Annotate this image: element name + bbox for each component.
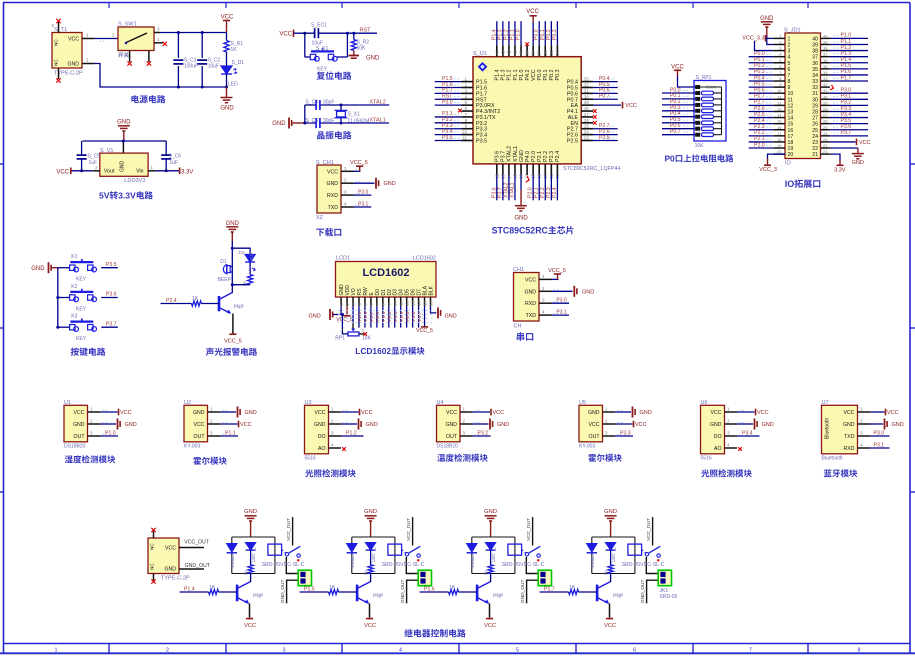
- svg-text:P1.1: P1.1: [841, 39, 852, 45]
- svg-text:3.3V: 3.3V: [834, 168, 846, 174]
- svg-text:27: 27: [812, 116, 818, 122]
- svg-text:1N4007: 1N4007: [350, 552, 355, 568]
- svg-text:P0.0: P0.0: [375, 311, 381, 321]
- svg-text:24: 24: [823, 131, 828, 136]
- svg-text:SRD-05VDC-SL-C: SRD-05VDC-SL-C: [262, 562, 305, 568]
- svg-text:38: 38: [823, 46, 828, 51]
- svg-text:XTAL1: XTAL1: [509, 182, 515, 198]
- svg-text:LED: LED: [251, 554, 256, 562]
- svg-text:VCC: VCC: [361, 410, 373, 416]
- svg-text:5V: 5V: [99, 191, 110, 201]
- svg-text:GND: GND: [582, 289, 594, 295]
- svg-text:10uF: 10uF: [208, 64, 219, 70]
- svg-text:S_EC1: S_EC1: [311, 23, 327, 29]
- svg-text:GND: GND: [710, 422, 722, 428]
- svg-text:1K: 1K: [603, 570, 608, 575]
- svg-text:P3.0: P3.0: [874, 430, 885, 436]
- svg-text:1uF: 1uF: [89, 160, 98, 166]
- svg-text:17: 17: [777, 131, 782, 136]
- svg-text:1N4007: 1N4007: [590, 552, 595, 568]
- svg-text:SRD-05: SRD-05: [660, 594, 678, 600]
- svg-text:P0.4: P0.4: [670, 111, 681, 117]
- svg-text:10: 10: [777, 88, 782, 93]
- svg-text:22: 22: [823, 143, 828, 148]
- svg-text:DO: DO: [714, 434, 722, 440]
- svg-text:VCC_OUT: VCC_OUT: [184, 540, 210, 546]
- svg-text:GND: GND: [226, 221, 240, 227]
- svg-text:P1.6: P1.6: [841, 69, 852, 75]
- svg-text:19: 19: [788, 146, 794, 152]
- svg-text:1K: 1K: [192, 296, 199, 302]
- svg-text:VCC: VCC: [279, 31, 292, 37]
- svg-text:S_T1: S_T1: [54, 27, 67, 33]
- svg-text:GND: GND: [640, 410, 652, 416]
- svg-text:39: 39: [812, 42, 818, 48]
- svg-text:Bluetooth: Bluetooth: [825, 418, 831, 439]
- svg-text:OUT: OUT: [194, 434, 206, 440]
- svg-text:32: 32: [584, 82, 589, 87]
- svg-text:S_U1: S_U1: [473, 51, 487, 57]
- svg-text:14: 14: [788, 116, 794, 122]
- svg-text:10K: 10K: [357, 46, 367, 52]
- svg-text:P3.5: P3.5: [841, 118, 852, 124]
- svg-text:PNP: PNP: [234, 305, 245, 311]
- svg-text:VCC: VCC: [221, 15, 234, 21]
- svg-text:37: 37: [823, 52, 828, 57]
- svg-text:P0.7: P0.7: [417, 311, 423, 321]
- svg-text:VCC: VCC: [240, 422, 252, 428]
- svg-text:RXD: RXD: [844, 446, 855, 452]
- svg-text:P0.3: P0.3: [754, 69, 765, 75]
- svg-text:16: 16: [777, 125, 782, 130]
- svg-text:1K: 1K: [231, 47, 238, 53]
- svg-text:IO: IO: [785, 179, 795, 189]
- svg-text:STC89C52RC_LQFP44: STC89C52RC_LQFP44: [563, 166, 621, 172]
- svg-text:7: 7: [749, 647, 752, 653]
- svg-text:S_C5: S_C5: [88, 154, 101, 160]
- svg-text:3.3V: 3.3V: [181, 169, 193, 175]
- svg-text:P3.0: P3.0: [358, 190, 369, 196]
- svg-text:S_SW1: S_SW1: [118, 22, 137, 28]
- svg-text:31: 31: [812, 91, 818, 97]
- svg-text:Vin: Vin: [136, 169, 144, 175]
- svg-text:GND: GND: [445, 422, 457, 428]
- svg-text:GND: GND: [588, 410, 600, 416]
- svg-text:VCC_OUT: VCC_OUT: [406, 518, 412, 541]
- svg-text:VCC: VCC: [446, 410, 457, 416]
- svg-text:25: 25: [823, 125, 828, 130]
- svg-text:26: 26: [823, 119, 828, 124]
- svg-text:GND: GND: [384, 181, 396, 187]
- svg-text:27: 27: [823, 113, 828, 118]
- svg-text:VCC: VCC: [887, 410, 899, 416]
- svg-text:39: 39: [823, 39, 828, 44]
- svg-text:100uF: 100uF: [184, 64, 198, 70]
- svg-text:37: 37: [537, 50, 542, 55]
- svg-text:1K: 1K: [329, 585, 336, 591]
- svg-text:12: 12: [404, 300, 409, 305]
- svg-text:40: 40: [519, 50, 524, 55]
- svg-text:6: 6: [788, 67, 791, 73]
- svg-text:SRD-05VDC-SL-C: SRD-05VDC-SL-C: [502, 562, 545, 568]
- svg-text:10: 10: [462, 130, 467, 135]
- svg-text:VCC: VCC: [315, 410, 326, 416]
- svg-text:VCC: VCC: [589, 422, 600, 428]
- svg-text:16: 16: [428, 300, 433, 305]
- svg-text:NC: NC: [54, 59, 59, 66]
- svg-text:RXD: RXD: [327, 193, 338, 199]
- svg-text:KY-003: KY-003: [579, 443, 595, 449]
- svg-text:19: 19: [777, 143, 782, 148]
- svg-text:P3.4: P3.4: [742, 430, 753, 436]
- svg-text:23: 23: [584, 136, 589, 141]
- svg-text:PNP: PNP: [493, 594, 504, 600]
- svg-text:VCC_3.3: VCC_3.3: [742, 35, 764, 41]
- svg-text:GND: GND: [245, 410, 257, 416]
- svg-text:LCD1602: LCD1602: [413, 256, 436, 262]
- svg-text:VCC: VCC: [711, 410, 722, 416]
- svg-text:K2: K2: [71, 284, 77, 290]
- svg-text:GND: GND: [843, 422, 855, 428]
- svg-text:GND_OUT: GND_OUT: [400, 579, 406, 603]
- svg-text:P0.7: P0.7: [599, 94, 610, 100]
- svg-text:VCC: VCC: [526, 9, 539, 15]
- svg-text:15: 15: [422, 300, 427, 305]
- svg-text:GND: GND: [604, 509, 617, 515]
- svg-text:1K: 1K: [483, 570, 488, 575]
- svg-text:KEY: KEY: [76, 307, 87, 313]
- svg-text:P2.5: P2.5: [567, 139, 578, 145]
- svg-text:DS18B20: DS18B20: [64, 443, 86, 449]
- svg-text:P3.2: P3.2: [478, 430, 489, 436]
- svg-text:VCC: VCC: [484, 623, 496, 629]
- svg-text:GND: GND: [67, 62, 79, 68]
- svg-text:GND: GND: [117, 120, 131, 126]
- svg-text:10: 10: [393, 300, 398, 305]
- svg-text:30: 30: [823, 94, 828, 99]
- svg-text:LCD1: LCD1: [336, 256, 350, 262]
- svg-text:CH: CH: [514, 324, 522, 330]
- svg-text:40: 40: [823, 33, 828, 38]
- svg-text:VCC_5: VCC_5: [416, 328, 433, 334]
- svg-text:GND: GND: [220, 106, 234, 112]
- svg-text:GND_OUT: GND_OUT: [640, 579, 646, 603]
- svg-text:S_C4: S_C4: [306, 118, 319, 124]
- svg-text:31: 31: [584, 88, 589, 93]
- svg-text:GND: GND: [366, 422, 378, 428]
- svg-text:LED: LED: [491, 554, 496, 562]
- svg-text:P1.4: P1.4: [184, 586, 195, 592]
- svg-text:1K: 1K: [449, 585, 456, 591]
- svg-text:VCC_3: VCC_3: [759, 167, 777, 173]
- svg-text:P3.6: P3.6: [106, 292, 117, 298]
- svg-text:38: 38: [531, 50, 536, 55]
- svg-text:5: 5: [516, 647, 519, 653]
- svg-text:LCD1602: LCD1602: [355, 346, 391, 356]
- svg-text:13: 13: [777, 106, 782, 111]
- svg-text:TYPE-C-2P: TYPE-C-2P: [161, 576, 190, 582]
- svg-text:30: 30: [584, 94, 589, 99]
- svg-text:RP1: RP1: [335, 335, 345, 341]
- svg-text:P1.6: P1.6: [424, 586, 435, 592]
- svg-text:VCC: VCC: [194, 422, 205, 428]
- svg-text:GND_OUT: GND_OUT: [280, 579, 286, 603]
- svg-text:27: 27: [584, 112, 589, 117]
- svg-text:3: 3: [283, 647, 286, 653]
- svg-text:P3.1: P3.1: [841, 94, 852, 100]
- svg-text:Bluetooth: Bluetooth: [822, 455, 843, 461]
- svg-text:1K: 1K: [243, 570, 248, 575]
- svg-text:DS18B20: DS18B20: [437, 443, 459, 449]
- svg-text:S_JD1: S_JD1: [784, 28, 801, 34]
- svg-text:30pF: 30pF: [323, 118, 334, 124]
- svg-text:1K: 1K: [363, 570, 368, 575]
- svg-text:34: 34: [823, 70, 828, 75]
- svg-text:VCC_5: VCC_5: [548, 268, 566, 274]
- svg-text:K3: K3: [71, 314, 77, 320]
- svg-text:P3.0: P3.0: [442, 99, 453, 105]
- svg-text:P3.5: P3.5: [476, 139, 487, 145]
- svg-text:21: 21: [823, 149, 828, 154]
- svg-text:1K: 1K: [242, 280, 247, 287]
- svg-text:32: 32: [823, 82, 828, 87]
- svg-text:GND: GND: [445, 314, 457, 320]
- svg-text:S_X1: S_X1: [348, 112, 360, 118]
- svg-text:VCC: VCC: [68, 37, 79, 43]
- svg-text:10K: 10K: [362, 335, 372, 341]
- svg-text:3.3V: 3.3V: [118, 191, 136, 201]
- svg-text:VCC: VCC: [56, 169, 69, 175]
- svg-text:P2.5: P2.5: [357, 311, 363, 321]
- svg-text:XTAL2: XTAL2: [369, 99, 385, 105]
- svg-text:2: 2: [166, 647, 169, 653]
- svg-text:15: 15: [788, 122, 794, 128]
- svg-text:23: 23: [812, 140, 818, 146]
- svg-text:GND: GND: [73, 422, 85, 428]
- svg-text:21: 21: [812, 152, 818, 158]
- svg-text:GND: GND: [31, 266, 45, 272]
- svg-text:P2.4: P2.4: [552, 187, 558, 198]
- svg-text:P2.4: P2.4: [754, 118, 765, 124]
- svg-text:RST: RST: [360, 27, 372, 33]
- svg-text:K1: K1: [71, 254, 77, 260]
- svg-text:P1.5: P1.5: [304, 586, 315, 592]
- svg-text:VCC_5: VCC_5: [350, 160, 368, 166]
- svg-text:P1.0: P1.0: [516, 29, 522, 40]
- svg-text:P3.1: P3.1: [556, 310, 567, 316]
- svg-text:20: 20: [777, 149, 782, 154]
- svg-text:26: 26: [584, 118, 589, 123]
- svg-text:VCC: VCC: [74, 410, 85, 416]
- svg-text:VCC: VCC: [165, 546, 176, 552]
- svg-text:GND: GND: [762, 422, 774, 428]
- svg-text:25: 25: [584, 124, 589, 129]
- svg-text:GND: GND: [364, 509, 377, 515]
- svg-text:1N4007: 1N4007: [230, 552, 235, 568]
- svg-text:18: 18: [788, 140, 794, 146]
- svg-text:VCC: VCC: [859, 140, 871, 146]
- svg-text:P0.3: P0.3: [393, 311, 399, 321]
- svg-text:KY-003: KY-003: [184, 443, 200, 449]
- svg-text:GND: GND: [760, 16, 774, 22]
- svg-text:P0: P0: [664, 154, 675, 164]
- svg-text:VCC: VCC: [493, 410, 505, 416]
- svg-text:44: 44: [494, 50, 499, 55]
- svg-text:29: 29: [584, 100, 589, 105]
- svg-text:P3.7: P3.7: [841, 130, 852, 136]
- svg-text:LCD1602: LCD1602: [362, 267, 409, 279]
- svg-text:P0.6: P0.6: [411, 311, 417, 321]
- svg-text:VCC_OUT: VCC_OUT: [646, 518, 652, 541]
- svg-text:23: 23: [823, 137, 828, 142]
- svg-text:SRD-05VDC-SL-C: SRD-05VDC-SL-C: [622, 562, 665, 568]
- svg-text:39: 39: [525, 50, 530, 55]
- svg-text:NC: NC: [54, 39, 59, 46]
- svg-text:P2.4: P2.4: [555, 151, 561, 162]
- svg-text:LED: LED: [228, 82, 238, 88]
- svg-text:NC: NC: [150, 543, 155, 550]
- svg-text:KEY: KEY: [76, 277, 87, 283]
- svg-text:GND: GND: [497, 422, 509, 428]
- svg-text:BLK: BLK: [429, 285, 435, 295]
- svg-text:S_K1: S_K1: [316, 46, 328, 52]
- svg-text:P0.2: P0.2: [387, 311, 393, 321]
- svg-text:P0.4: P0.4: [399, 311, 405, 321]
- svg-text:TXD: TXD: [526, 313, 537, 319]
- svg-text:5516: 5516: [305, 455, 316, 461]
- svg-text:LDO3V3: LDO3V3: [124, 178, 145, 184]
- svg-text:GND: GND: [514, 216, 528, 222]
- svg-text:KEY: KEY: [76, 336, 87, 342]
- svg-text:GND: GND: [272, 121, 286, 127]
- svg-text:13: 13: [410, 300, 415, 305]
- svg-text:TXD: TXD: [328, 205, 339, 211]
- svg-text:VCC_5: VCC_5: [336, 317, 353, 323]
- svg-text:43: 43: [500, 50, 505, 55]
- svg-text:AO: AO: [318, 446, 326, 452]
- svg-text:GND: GND: [125, 422, 137, 428]
- svg-text:GND: GND: [366, 56, 380, 62]
- svg-text:S_V1: S_V1: [100, 148, 113, 154]
- svg-text:VCC: VCC: [757, 410, 769, 416]
- svg-text:18: 18: [777, 137, 782, 142]
- svg-text:P0.3: P0.3: [552, 29, 558, 40]
- svg-text:OUT: OUT: [446, 434, 458, 440]
- svg-text:8: 8: [858, 647, 861, 653]
- svg-text:XZ: XZ: [316, 215, 324, 221]
- svg-text:33: 33: [823, 76, 828, 81]
- svg-text:P2.4: P2.4: [166, 298, 177, 304]
- svg-text:P0.3: P0.3: [555, 70, 561, 81]
- svg-text:PNP: PNP: [253, 594, 264, 600]
- svg-text:PNP: PNP: [373, 594, 384, 600]
- svg-text:GND: GND: [244, 509, 257, 515]
- svg-text:BEEP: BEEP: [218, 277, 232, 283]
- svg-text:P3.5: P3.5: [442, 135, 453, 141]
- svg-text:P1.2: P1.2: [346, 430, 357, 436]
- svg-text:4: 4: [399, 647, 402, 653]
- svg-text:26: 26: [812, 122, 818, 128]
- svg-text:VCC: VCC: [120, 410, 132, 416]
- svg-text:VCC: VCC: [525, 277, 536, 283]
- svg-text:36: 36: [823, 58, 828, 63]
- svg-text:14: 14: [416, 300, 421, 305]
- svg-text:P1.1: P1.1: [225, 430, 236, 436]
- svg-text:P3.1: P3.1: [358, 201, 369, 207]
- svg-text:S_C6: S_C6: [169, 154, 182, 160]
- svg-text:24: 24: [584, 130, 589, 135]
- svg-text:P2.6: P2.6: [363, 311, 369, 321]
- svg-text:P2.0: P2.0: [754, 142, 765, 148]
- svg-text:GND: GND: [326, 181, 338, 187]
- svg-text:D2: D2: [239, 250, 245, 255]
- svg-text:P1.0: P1.0: [105, 430, 116, 436]
- svg-text:GND: GND: [193, 410, 205, 416]
- svg-text:PNP: PNP: [613, 594, 624, 600]
- svg-text:VCC: VCC: [364, 623, 376, 629]
- svg-text:P3.0: P3.0: [556, 298, 567, 304]
- svg-text:28: 28: [823, 106, 828, 111]
- svg-text:33: 33: [584, 77, 589, 82]
- svg-text:P1.7: P1.7: [841, 75, 852, 81]
- svg-text:11: 11: [463, 136, 468, 141]
- svg-text:OUT: OUT: [74, 434, 86, 440]
- svg-text:22: 22: [812, 146, 818, 152]
- svg-text:10K: 10K: [695, 143, 705, 149]
- svg-text:P2.7: P2.7: [369, 311, 375, 321]
- svg-text:VCC: VCC: [844, 410, 855, 416]
- svg-text:28: 28: [584, 106, 589, 111]
- svg-text:P0.5: P0.5: [405, 311, 411, 321]
- svg-text:GND: GND: [484, 509, 497, 515]
- svg-text:5516: 5516: [701, 455, 712, 461]
- svg-text:GND: GND: [892, 422, 904, 428]
- svg-text:LED: LED: [371, 554, 376, 562]
- svg-text:D1: D1: [220, 259, 227, 265]
- svg-text:GND_OUT: GND_OUT: [185, 563, 211, 569]
- svg-text:LED: LED: [611, 554, 616, 562]
- svg-text:VCC: VCC: [635, 422, 647, 428]
- svg-text:P3.1: P3.1: [874, 442, 885, 448]
- svg-text:35: 35: [812, 67, 818, 73]
- svg-text:LED: LED: [249, 252, 254, 262]
- svg-text:P2.5: P2.5: [599, 135, 610, 141]
- svg-text:STC89C52RC: STC89C52RC: [492, 226, 549, 236]
- svg-text:31: 31: [823, 88, 828, 93]
- svg-text:15: 15: [777, 119, 782, 124]
- svg-text:41: 41: [512, 50, 517, 55]
- svg-text:29: 29: [823, 100, 828, 105]
- svg-text:P3.7: P3.7: [106, 321, 117, 327]
- svg-text:1N4007: 1N4007: [470, 552, 475, 568]
- svg-text:34: 34: [555, 50, 560, 55]
- svg-text:S_D1: S_D1: [232, 60, 245, 66]
- svg-text:GND_OUT: GND_OUT: [520, 579, 526, 603]
- svg-text:SRD-05VDC-SL-C: SRD-05VDC-SL-C: [382, 562, 425, 568]
- svg-text:VCC_OUT: VCC_OUT: [286, 518, 292, 541]
- svg-text:2: 2: [788, 42, 791, 48]
- svg-text:1K: 1K: [569, 585, 576, 591]
- svg-text:IO: IO: [785, 161, 792, 167]
- svg-text:GND: GND: [309, 313, 321, 319]
- svg-text:GND: GND: [120, 161, 126, 173]
- svg-text:DO: DO: [318, 434, 326, 440]
- svg-text:12: 12: [777, 100, 782, 105]
- svg-text:1K: 1K: [209, 585, 216, 591]
- svg-text:1uF: 1uF: [170, 160, 179, 166]
- svg-text:VCC_OUT: VCC_OUT: [526, 518, 532, 541]
- svg-text:VCC_5: VCC_5: [224, 339, 242, 345]
